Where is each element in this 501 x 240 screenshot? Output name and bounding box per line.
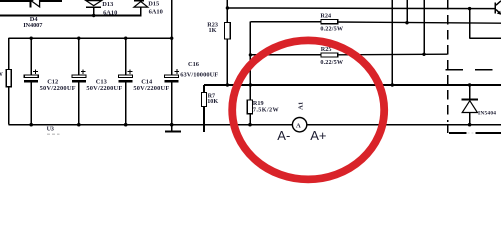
svg-text:A1: A1	[298, 102, 305, 110]
wire rail caps top	[9, 37, 172, 39]
transistor Q (partial)	[494, 1, 501, 15]
svg-text:10K: 10K	[207, 98, 218, 105]
junction dot bus R19	[248, 123, 252, 127]
junction dot mid bus R23	[226, 83, 229, 86]
label R19	[253, 100, 264, 107]
svg-text:R24: R24	[320, 12, 331, 19]
svg-text:IN4007: IN4007	[23, 22, 43, 29]
junction dot V407-H2	[405, 21, 408, 24]
wire bottom-right faint gap marks	[468, 132, 475, 134]
resistor R24	[250, 20, 501, 24]
wire dashed horizontal	[446, 69, 496, 71]
wire vertical to C16	[171, 0, 173, 75]
label W	[0, 72, 3, 78]
diode 1N5404	[462, 85, 478, 125]
capacitor C13	[72, 38, 86, 125]
svg-text:1K: 1K	[209, 27, 217, 34]
label D4	[30, 16, 39, 23]
junction dot rail C16	[170, 37, 173, 40]
wire stub below bus right	[447, 125, 449, 133]
junction dot rail C13	[77, 37, 80, 40]
junction dot V424-H4	[422, 53, 425, 56]
label R7	[208, 93, 216, 100]
junction dot mid bus V392	[391, 83, 394, 86]
label R23	[207, 21, 218, 28]
svg-text:IN5404: IN5404	[478, 110, 496, 116]
wire R24-R25 vertical link	[249, 22, 251, 85]
label U3 faint remnant	[47, 133, 60, 135]
junction dot R25 left	[249, 53, 252, 56]
svg-text:50V/2200UF: 50V/2200UF	[133, 85, 169, 92]
diode D13	[86, 1, 102, 16]
label C13	[96, 78, 107, 85]
svg-text:0.22/5W: 0.22/5W	[320, 25, 343, 32]
label 1K	[209, 27, 217, 34]
label 10K	[207, 98, 218, 105]
label A-	[277, 128, 290, 143]
wire mid bus	[204, 84, 501, 86]
label R19 value	[253, 106, 280, 113]
junction dot bus C12	[29, 123, 33, 127]
label C16	[188, 61, 200, 68]
capacitor C14	[119, 38, 133, 125]
junction dot bus C16	[170, 123, 174, 127]
svg-text:7.5K/2W: 7.5K/2W	[253, 106, 280, 113]
label R25 value	[320, 59, 343, 66]
ground	[165, 125, 181, 133]
wire bottom-right line left part	[449, 132, 467, 134]
diode D4	[30, 0, 40, 7]
wire bottom bus right	[307, 124, 501, 126]
label R24	[320, 12, 331, 19]
label C12 value	[40, 85, 76, 92]
wire H1 base feed	[227, 7, 494, 10]
svg-text:6A10: 6A10	[103, 10, 117, 17]
svg-text:50V/2200UF: 50V/2200UF	[40, 85, 76, 92]
label C14 value	[133, 85, 169, 92]
capacitor C16	[165, 69, 179, 125]
label 6A10 D15	[149, 8, 163, 15]
label C12	[47, 78, 58, 85]
svg-text:D15: D15	[148, 0, 159, 7]
label D13	[102, 1, 113, 8]
svg-text:50V/2200UF: 50V/2200UF	[86, 85, 122, 92]
wire dashed vertical	[447, 0, 449, 122]
resistor RW left edge	[6, 38, 11, 125]
label C14	[141, 78, 153, 85]
wire top-left segment A	[0, 0, 31, 2]
junction dot bus C14	[124, 123, 128, 127]
label IN5404	[478, 110, 496, 116]
label IN4007	[23, 22, 43, 29]
svg-text:0.22/5W: 0.22/5W	[320, 59, 343, 66]
label A1 rotated	[298, 102, 305, 110]
junction dot mid bus diode	[468, 83, 471, 86]
wire bus D13/D15	[0, 15, 142, 17]
junction dot rail C12	[30, 37, 33, 40]
wire V470	[469, 9, 471, 39]
diode D15	[134, 0, 148, 16]
svg-text:63V/10000UF: 63V/10000UF	[180, 71, 218, 78]
junction dot bus C13	[77, 123, 81, 127]
wire V424	[423, 0, 425, 54]
svg-text:A+: A+	[310, 128, 326, 143]
resistor R7	[201, 85, 227, 132]
svg-text:6A10: 6A10	[149, 8, 163, 15]
wire H3	[470, 37, 501, 39]
svg-text:A: A	[296, 122, 301, 129]
label R25	[321, 46, 332, 53]
label A+	[310, 128, 326, 143]
junction dot H1 emitter node	[468, 7, 471, 10]
resistor R25	[250, 53, 447, 57]
resistor R19	[247, 85, 252, 125]
label U3	[47, 126, 54, 132]
label 6A10 D13	[103, 10, 117, 17]
resistor R23	[225, 0, 231, 85]
wire bottom bus left	[9, 124, 293, 126]
wire bottom-right line right part	[475, 132, 501, 134]
junction dot mid bus R19	[249, 83, 252, 86]
svg-text:D13: D13	[102, 1, 113, 8]
label C16 value	[180, 71, 218, 78]
annotation red circle	[232, 40, 384, 179]
label C13 value	[86, 85, 122, 92]
svg-text:C16: C16	[188, 61, 200, 68]
wire V392	[391, 0, 393, 85]
svg-text:U3: U3	[47, 126, 54, 132]
junction dot bus diode	[468, 123, 472, 127]
wire top-left segment B	[40, 0, 63, 2]
junction dot D13-bus	[92, 14, 95, 17]
junction dot rail C14	[124, 37, 127, 40]
svg-text:W: W	[0, 72, 3, 78]
label D15	[148, 0, 159, 7]
capacitor C12	[24, 38, 38, 125]
ammeter A1	[292, 118, 306, 132]
wire V407	[406, 0, 408, 24]
label R24 value	[320, 25, 343, 32]
junction dot R23 top	[226, 6, 229, 9]
svg-text:A-: A-	[277, 128, 290, 143]
